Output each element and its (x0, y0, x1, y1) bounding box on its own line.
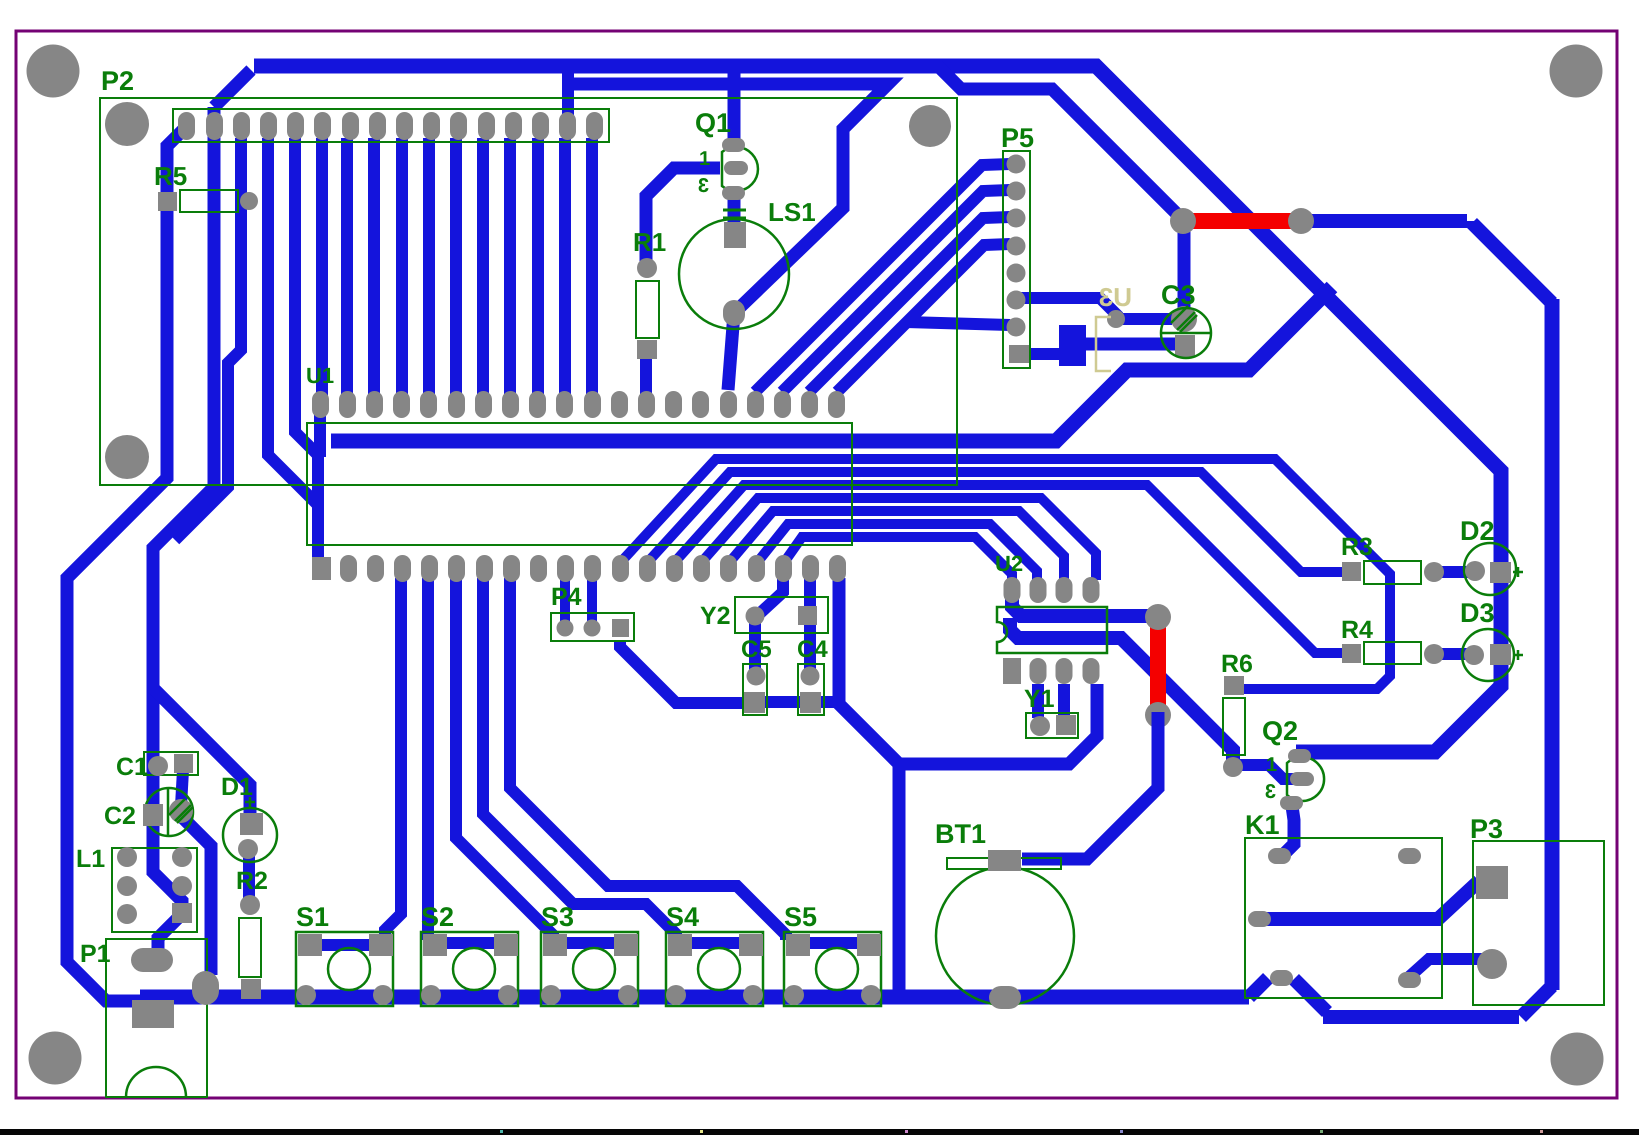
svg-text:C3: C3 (1161, 280, 1196, 310)
svg-text:U1: U1 (306, 363, 334, 388)
svg-text:BT1: BT1 (935, 819, 986, 849)
P2 mount pad bottom (105, 435, 149, 479)
LS1 pad1 square (724, 222, 746, 248)
wire: P2 pad4 column to U1 bottom pin1 (268, 138, 318, 562)
svg-text:D3: D3 (1460, 598, 1495, 628)
wire: Q1 pin2 to R1 (646, 168, 720, 262)
svg-text:P3: P3 (1470, 814, 1503, 844)
wire: bus rise to K1 bottom-left pad (1249, 978, 1268, 997)
connector P5 outline (1003, 151, 1030, 368)
wire: elbow top trace to P2 pad2 (214, 70, 251, 107)
P3 square pad (1476, 866, 1508, 899)
wire: R4 to D3 (1434, 648, 1474, 660)
wire: U1 bottom pad11 to P4 pad2 (587, 578, 597, 624)
wire: P5 pad6 to C3 via (1016, 298, 1172, 319)
P1 pads (131, 948, 173, 972)
mounting hole top-left (27, 45, 80, 98)
red top-layer bridge near C3 (1176, 213, 1294, 229)
svg-text:P4: P4 (551, 583, 582, 611)
U1 top pad row (312, 391, 845, 418)
wire: U1 bottom pad10 to P4 pad1 (560, 578, 570, 624)
svg-text:R4: R4 (1341, 616, 1373, 644)
wire: U1 bottom pad7 to S4 (483, 578, 676, 940)
svg-text:R2: R2 (236, 867, 268, 895)
wire: U2 pad3b to Y1 pad2 (1058, 684, 1070, 716)
P4 pads (557, 620, 574, 637)
wire: U1 top pad18 to P5 pad2 (782, 190, 1010, 392)
wire: bus line U1 pad15 to U2 pad4 (700, 498, 1096, 580)
wire: tee from pad20 diagonal to P5 pad7 (906, 322, 1010, 325)
wire: P2 pad1 via R5 down-left to bottom bus (67, 126, 187, 1001)
wire: red bridge right pad to corner (1301, 214, 1467, 228)
wire: U2 pad2b to Y1 pad1 (1032, 684, 1044, 718)
wire: bus line U1 pad14 to R4 (673, 485, 1347, 653)
wire: P2 pad2 down-left to C1/C2/L1/P1 column (153, 107, 214, 914)
svg-text:S4: S4 (666, 902, 699, 932)
svg-text:S3: S3 (541, 902, 574, 932)
wire: U1 top pad19 to P5 pad3 (809, 217, 1010, 392)
wire: C1 to C2 via (181, 770, 183, 806)
wire: P2 pad8 to U1 top pad3 (368, 138, 380, 396)
via: red bridge right (1288, 208, 1314, 234)
wire: U1 bottom pad6 to S3 (456, 578, 553, 940)
wire: bus line U1 pad13 to R3 (646, 472, 1347, 572)
wire: U1 top pad16 to LS1 pad2 (728, 313, 734, 390)
svg-text:R3: R3 (1341, 533, 1373, 561)
LS1 pad2 (723, 300, 745, 326)
U2 top pads (1004, 577, 1100, 603)
P2 mount pad top (105, 102, 149, 146)
svg-text:P2: P2 (101, 66, 134, 96)
wire: D1 cathode to R2 (243, 853, 255, 901)
svg-text:D2: D2 (1460, 516, 1495, 546)
wire: T2 from P2 pad15 to LS1 pad2 (568, 84, 888, 313)
via: red2 top (1145, 604, 1171, 630)
wire: U1 bottom pad18 to Y2 pad1 (757, 578, 783, 616)
LS1 polarity marks (723, 209, 746, 212)
wire: K1 bottom-left pad to lower-right channel (1294, 979, 1327, 1012)
connector P2 pin row outline (173, 109, 609, 142)
K1 pads (1268, 848, 1291, 864)
P3 round pad (1477, 949, 1507, 979)
D2 plus mark (1513, 571, 1523, 574)
BT1 minus pad (989, 986, 1021, 1009)
wire: junction to U2 pad4 from below (899, 684, 1097, 764)
svg-text:C4: C4 (797, 636, 828, 663)
wire: U1 top pad20 to P5 pad4 (837, 244, 1010, 392)
wire: bottom ground bus along S1..S5 and BT1 (140, 990, 1249, 1005)
svg-text:LS1: LS1 (768, 197, 816, 227)
wire: bus line U1 pad17 to U2 pad2 (756, 524, 1037, 580)
wire: red bridge left pad down to C3 via (1178, 228, 1191, 308)
connector P2 pads (178, 112, 603, 140)
wire: R1 to U1 top pad13 (640, 348, 652, 398)
svg-text:R1: R1 (633, 227, 666, 257)
wire: K1 bottom-mid pad to P3 round pad (1409, 959, 1489, 977)
svg-text:1: 1 (699, 148, 710, 170)
wire: P2 pad11 to U1 top pad6 (450, 138, 462, 396)
via: red bridge left (1170, 208, 1196, 234)
wire: P2 pad15 to U1 top pad10 (559, 138, 571, 396)
BT1 plus pad (988, 850, 1021, 871)
wire: P2 pad15 stub to top bus (562, 72, 574, 118)
wire: bus line U1 pad16 to U2 pad3 (728, 511, 1064, 580)
wire: branch to D1 anode (153, 688, 250, 818)
wire: lower horizontal channel under K1/P3 (1323, 1010, 1519, 1024)
svg-text:R5: R5 (154, 161, 187, 191)
wire: C5 to C4 horizontal (744, 696, 841, 708)
via near C3 (1107, 310, 1125, 328)
connector P5 pads (1007, 155, 1030, 364)
wire: top bus from P2 pin2 to D2/D3/Q2 (net VCC?) (254, 66, 1501, 752)
wire: P2 pad12 to U1 top pad7 (477, 138, 489, 396)
U2 bottom pads (pin1 square) (1003, 658, 1100, 684)
switch S2 (421, 902, 518, 1006)
L1 pads (117, 847, 137, 867)
wire: U1 top pad17 to P5 pad1 (755, 164, 1010, 392)
svg-text:U3: U3 (1099, 282, 1132, 312)
mounting hole bottom-left (29, 1032, 82, 1085)
wire: U1 thick bus line to C3 region (331, 287, 1332, 441)
svg-text:C5: C5 (741, 636, 772, 663)
wire: P2 pad5 column merge (295, 138, 318, 510)
wire: P2 pad10 to U1 top pad5 (423, 138, 435, 396)
svg-text:Y1: Y1 (1024, 685, 1055, 713)
wire: S2 top inner trace (432, 937, 509, 949)
svg-text:1: 1 (1266, 754, 1277, 776)
wire: top bus stub down to Q1 pin1 (728, 70, 741, 140)
wire: U1 bottom pad8 to S5 (510, 578, 786, 940)
wire: P5 pad8 to pour blob (1029, 348, 1060, 360)
wire: S5 top inner trace (786, 937, 869, 949)
svg-text:S2: S2 (421, 902, 454, 932)
silk bracket U3 (tan) (1096, 317, 1111, 371)
wire: P2 pad7 to U1 top pad2 (341, 138, 353, 396)
IC U1 outline (307, 423, 852, 545)
svg-text:C2: C2 (104, 802, 136, 830)
wire: P4 pad3 to C5/C4 caps (620, 640, 744, 703)
bottom screen edge bar (0, 1129, 1639, 1135)
svg-text:3: 3 (1265, 781, 1276, 803)
svg-text:U2: U2 (995, 551, 1023, 576)
wire: U1 bottom pad19 through Y2 pad2 to C4 (804, 578, 816, 672)
wire: right edge vertical (1545, 299, 1560, 990)
svg-text:K1: K1 (1245, 810, 1280, 840)
wire: C2 via diagonal to P1 right pad (181, 816, 211, 975)
svg-text:S1: S1 (296, 902, 329, 932)
copper blob near C3 (1059, 325, 1086, 366)
wire: top bus jog to red bridge left pad (938, 66, 1184, 221)
svg-text:S5: S5 (784, 902, 817, 932)
wire: Q2 pin3 down to K1 pad1 (1282, 806, 1294, 856)
svg-text:R6: R6 (1221, 650, 1253, 678)
svg-text:P5: P5 (1001, 123, 1034, 153)
wire: S3 top inner trace (551, 937, 628, 949)
wire: P2 pad6 column to U1 pin1 (316, 138, 328, 396)
P2 mount pad right (909, 105, 951, 147)
wire: U1 bottom pad5 to S2 (422, 578, 434, 940)
svg-text:Y2: Y2 (700, 602, 731, 630)
wire: R3 to D2 (1434, 566, 1475, 578)
wire: S4 top inner trace (676, 937, 752, 949)
switch S1 (296, 902, 393, 1006)
mounting hole bottom-right (1551, 1033, 1604, 1086)
red top-layer bridge near U2 (1150, 618, 1166, 715)
wire: U2 inner trace B to R6 pad2 (1010, 618, 1233, 763)
P1 bottom arc (126, 1067, 186, 1097)
switch S4 (666, 902, 763, 1006)
switch S3 (541, 902, 638, 1006)
svg-text:L1: L1 (76, 845, 105, 873)
wire: U1 bottom pad4 to S1 (385, 578, 401, 941)
wire: S1 top inner trace (306, 939, 385, 951)
wire: K1 middle pad to P3 square pad (1262, 881, 1479, 919)
wire: U2 pin1 to via A (1012, 592, 1150, 616)
mounting hole top-right (1550, 45, 1603, 98)
wire: bus line U1 pad18 to U2 pad1 (783, 537, 1012, 580)
wire: P2 pad13 to U1 top pad8 (504, 138, 516, 396)
wire: U1 bottom pad20 down to junction and bus (839, 578, 899, 997)
wire: U1 pin1 stub (314, 406, 326, 457)
wire: P2 pad16 to U1 top pad11 (586, 138, 598, 396)
svg-text:Q2: Q2 (1262, 716, 1298, 746)
wire: P2 pad9 to U1 top pad4 (396, 138, 408, 396)
wire: right vertical to top corner diagonal (1472, 221, 1552, 303)
wire: red2 bottom via to BT1 plus pad (1022, 712, 1158, 859)
wire: bus line U1 pad12 to R6 (via under R3/R4) (619, 459, 1390, 689)
U1 bottom pad row (pin1 square) (312, 555, 846, 582)
wire: L1 pad to P1 oval pad (158, 914, 182, 956)
via: red2 bottom (1145, 702, 1171, 728)
wire: blob to C3 pad (1086, 338, 1176, 351)
svg-text:3: 3 (698, 175, 709, 197)
wire: P2 pad3 jog column (175, 138, 241, 540)
wire: P2 pad14 to U1 top pad9 (532, 138, 544, 396)
D1 plus mark (245, 801, 255, 804)
svg-text:D1: D1 (221, 773, 253, 801)
connector P2 outline (100, 98, 957, 485)
D3 plus mark (1513, 654, 1523, 657)
wire: Q1 pin3 to LS1 pad1 (728, 194, 741, 230)
wire: Y2 pad1 to C5 (749, 616, 761, 672)
wire: R6 pad2 to Q2 pin2 (1233, 765, 1304, 779)
svg-text:Q1: Q1 (695, 108, 731, 138)
switch S5 (784, 902, 881, 1006)
wire: channel rise to right vertical (1521, 986, 1552, 1017)
